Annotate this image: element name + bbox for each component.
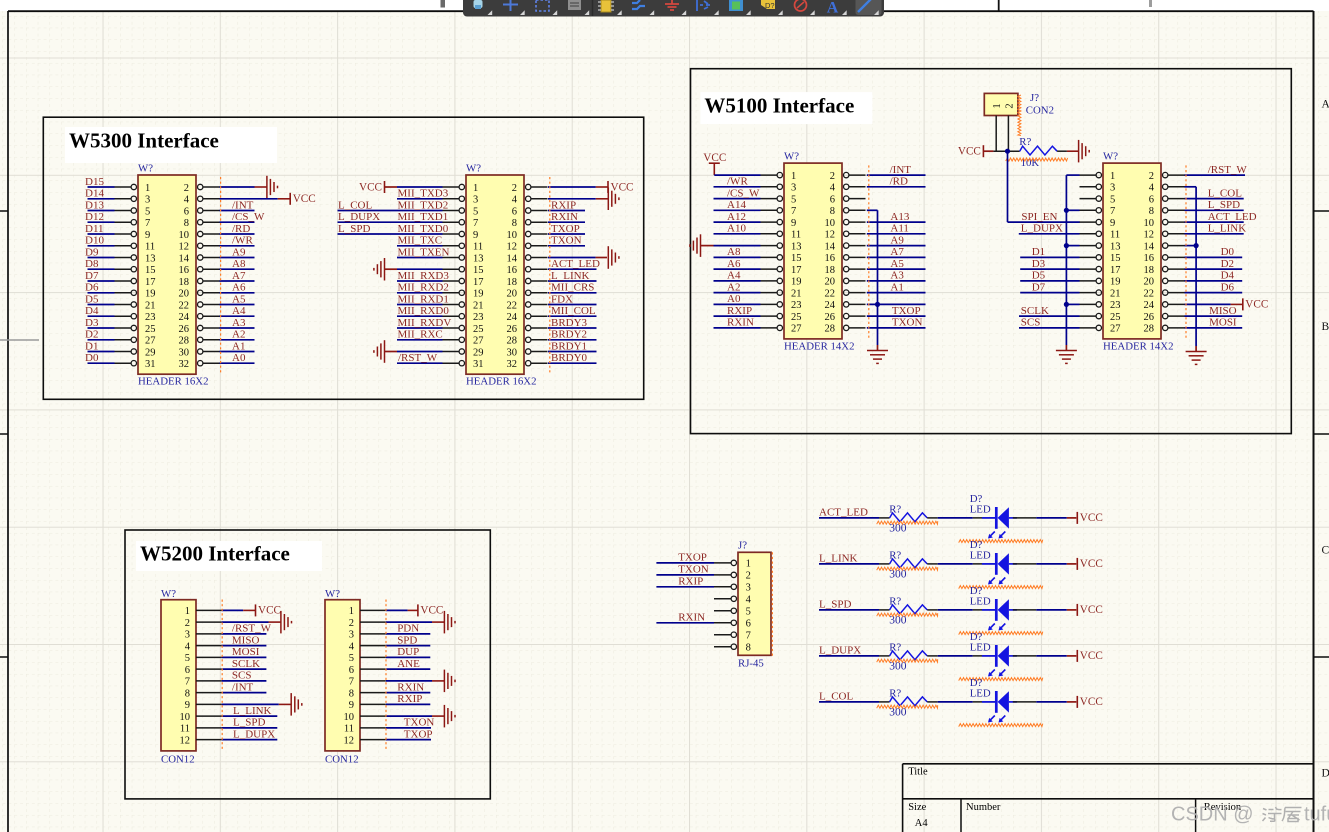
svg-text:D5: D5 — [1032, 270, 1046, 282]
svg-text:1: 1 — [349, 606, 354, 617]
svg-text:/CS_W: /CS_W — [727, 187, 760, 199]
svg-text:DUP: DUP — [397, 646, 419, 658]
svg-text:14: 14 — [179, 253, 190, 264]
svg-text:31: 31 — [473, 359, 484, 370]
svg-text:TXOP: TXOP — [551, 223, 580, 235]
svg-text:L_LINK: L_LINK — [551, 270, 590, 282]
svg-text:Number: Number — [966, 802, 1001, 813]
svg-text:28: 28 — [507, 336, 518, 347]
svg-text:4: 4 — [1149, 183, 1155, 194]
svg-text:28: 28 — [179, 336, 190, 347]
svg-text:/INT: /INT — [232, 199, 254, 211]
svg-text:A12: A12 — [727, 211, 746, 223]
svg-text:MII_TXEN: MII_TXEN — [398, 246, 450, 258]
svg-text:ACT_LED: ACT_LED — [551, 258, 600, 270]
svg-text:2: 2 — [184, 183, 189, 194]
svg-text:R?: R? — [889, 549, 901, 561]
svg-text:HEADER 16X2: HEADER 16X2 — [138, 376, 208, 388]
svg-text:8: 8 — [184, 218, 189, 229]
svg-text:VCC: VCC — [1080, 558, 1103, 570]
svg-text:2: 2 — [1149, 171, 1154, 182]
svg-text:3: 3 — [1110, 183, 1115, 194]
svg-text:TXON: TXON — [892, 317, 923, 329]
svg-text:30: 30 — [179, 347, 190, 358]
svg-text:17: 17 — [791, 265, 802, 276]
svg-text:3: 3 — [185, 630, 190, 641]
svg-text:3: 3 — [791, 183, 796, 194]
svg-text:7: 7 — [791, 206, 796, 217]
svg-text:VCC: VCC — [1080, 512, 1103, 524]
svg-text:21: 21 — [473, 300, 484, 311]
svg-text:20: 20 — [1144, 277, 1155, 288]
svg-text:27: 27 — [473, 336, 484, 347]
svg-text:15: 15 — [473, 265, 484, 276]
svg-text:MII_RXC: MII_RXC — [398, 329, 443, 341]
svg-text:MII_CRS: MII_CRS — [551, 282, 594, 294]
svg-text:LED: LED — [970, 549, 991, 561]
svg-text:9: 9 — [349, 700, 354, 711]
svg-text:11: 11 — [473, 242, 483, 253]
svg-text:3: 3 — [349, 630, 354, 641]
svg-text:A3: A3 — [890, 270, 904, 282]
svg-text:VCC: VCC — [958, 146, 981, 158]
svg-text:5: 5 — [185, 653, 190, 664]
svg-text:2: 2 — [512, 183, 517, 194]
svg-text:W5200 Interface: W5200 Interface — [140, 542, 290, 566]
svg-text:MII_TXD3: MII_TXD3 — [398, 188, 449, 200]
svg-text:J?: J? — [738, 540, 747, 552]
svg-text:4: 4 — [184, 195, 190, 206]
svg-text:18: 18 — [1144, 265, 1155, 276]
svg-text:2: 2 — [349, 618, 354, 629]
svg-text:W?: W? — [466, 163, 481, 175]
svg-text:10: 10 — [179, 230, 190, 241]
svg-text:R?: R? — [889, 641, 901, 653]
svg-text:LED: LED — [970, 687, 991, 699]
svg-text:/WR: /WR — [727, 176, 748, 188]
svg-text:30: 30 — [507, 347, 518, 358]
svg-text:D5: D5 — [85, 293, 99, 305]
svg-text:A5: A5 — [890, 258, 904, 270]
svg-text:22: 22 — [179, 300, 190, 311]
svg-text:17: 17 — [1110, 265, 1121, 276]
svg-text:A1: A1 — [890, 281, 903, 293]
svg-text:D7: D7 — [1032, 281, 1046, 293]
svg-text:3: 3 — [746, 583, 751, 594]
svg-text:HEADER 14X2: HEADER 14X2 — [784, 341, 854, 353]
svg-text:23: 23 — [1110, 300, 1121, 311]
svg-text:W5100 Interface: W5100 Interface — [704, 93, 854, 117]
svg-text:D15: D15 — [85, 176, 104, 188]
svg-text:RXIP: RXIP — [727, 305, 752, 317]
svg-text:VCC: VCC — [420, 605, 443, 617]
svg-text:RJ-45: RJ-45 — [738, 658, 764, 670]
svg-text:C: C — [1322, 545, 1329, 557]
svg-text:2: 2 — [746, 571, 751, 582]
svg-text:7: 7 — [185, 677, 190, 688]
svg-text:A: A — [1322, 99, 1329, 111]
svg-text:4: 4 — [185, 641, 191, 652]
svg-text:23: 23 — [145, 312, 156, 323]
svg-text:A7: A7 — [890, 246, 904, 258]
svg-text:L_DUPX: L_DUPX — [819, 645, 861, 657]
svg-text:MII_RXD0: MII_RXD0 — [398, 305, 450, 317]
svg-text:/RST_W: /RST_W — [232, 623, 272, 635]
svg-text:/RD: /RD — [232, 223, 250, 235]
svg-text:CON12: CON12 — [325, 754, 359, 766]
svg-text:A4: A4 — [915, 818, 929, 829]
svg-text:24: 24 — [507, 312, 518, 323]
svg-text:18: 18 — [825, 265, 836, 276]
svg-text:J?: J? — [1030, 92, 1039, 104]
svg-text:HEADER 16X2: HEADER 16X2 — [466, 376, 536, 388]
svg-text:D10: D10 — [85, 235, 104, 247]
svg-text:5: 5 — [145, 206, 150, 217]
svg-text:ACT_LED: ACT_LED — [1208, 211, 1257, 223]
svg-text:10: 10 — [825, 218, 836, 229]
svg-text:A7: A7 — [232, 270, 246, 282]
svg-text:D14: D14 — [85, 188, 104, 200]
svg-text:11: 11 — [791, 230, 801, 241]
svg-text:1: 1 — [1110, 171, 1115, 182]
svg-text:L_SPD: L_SPD — [1208, 199, 1240, 211]
svg-text:8: 8 — [185, 688, 190, 699]
svg-text:2: 2 — [185, 618, 190, 629]
svg-text:18: 18 — [507, 277, 518, 288]
svg-text:26: 26 — [1144, 312, 1155, 323]
svg-text:1: 1 — [145, 183, 150, 194]
svg-text:CON2: CON2 — [1026, 105, 1054, 117]
svg-text:/WR: /WR — [232, 235, 253, 247]
svg-text:32: 32 — [179, 359, 190, 370]
svg-text:W5300 Interface: W5300 Interface — [69, 129, 219, 153]
svg-text:A2: A2 — [727, 281, 740, 293]
svg-text:300: 300 — [889, 706, 907, 718]
svg-text:24: 24 — [825, 300, 836, 311]
svg-text:12: 12 — [825, 230, 836, 241]
svg-text:BRDY1: BRDY1 — [551, 340, 587, 352]
svg-text:D12: D12 — [85, 211, 104, 223]
svg-text:D11: D11 — [85, 223, 104, 235]
svg-text:10: 10 — [1144, 218, 1155, 229]
svg-text:D2: D2 — [85, 329, 98, 341]
svg-text:12: 12 — [179, 242, 190, 253]
svg-text:15: 15 — [791, 253, 802, 264]
svg-text:25: 25 — [1110, 312, 1121, 323]
svg-text:10: 10 — [180, 712, 191, 723]
svg-text:6: 6 — [512, 206, 517, 217]
svg-text:26: 26 — [179, 324, 190, 335]
svg-text:L_LINK: L_LINK — [233, 705, 272, 717]
svg-text:2: 2 — [830, 171, 835, 182]
svg-text:A8: A8 — [727, 246, 741, 258]
svg-text:MII_TXD1: MII_TXD1 — [398, 211, 449, 223]
svg-text:SCLK: SCLK — [1021, 305, 1049, 317]
svg-text:1: 1 — [791, 171, 796, 182]
svg-text:6: 6 — [830, 194, 835, 205]
svg-text:VCC: VCC — [1080, 696, 1103, 708]
svg-text:A6: A6 — [727, 258, 741, 270]
svg-text:B: B — [1322, 321, 1329, 333]
svg-text:MII_COL: MII_COL — [551, 305, 596, 317]
svg-text:17: 17 — [473, 277, 484, 288]
svg-text:MOSI: MOSI — [232, 646, 260, 658]
svg-text:2: 2 — [1004, 103, 1015, 108]
svg-text:D3: D3 — [85, 317, 99, 329]
svg-text:12: 12 — [180, 735, 191, 746]
svg-text:8: 8 — [1149, 206, 1154, 217]
svg-text:A3: A3 — [232, 317, 246, 329]
svg-text:28: 28 — [825, 324, 836, 335]
svg-text:32: 32 — [507, 359, 518, 370]
svg-text:6: 6 — [746, 619, 751, 630]
svg-text:11: 11 — [344, 724, 354, 735]
svg-text:W?: W? — [784, 151, 799, 163]
svg-text:D0: D0 — [85, 352, 99, 364]
svg-text:3: 3 — [145, 195, 150, 206]
svg-text:R?: R? — [1019, 136, 1031, 148]
svg-text:A11: A11 — [890, 223, 909, 235]
svg-text:4: 4 — [830, 183, 836, 194]
svg-text:12: 12 — [344, 735, 355, 746]
svg-text:9: 9 — [1110, 218, 1115, 229]
svg-text:D0: D0 — [1221, 246, 1235, 258]
svg-text:SCS: SCS — [232, 670, 252, 682]
svg-text:14: 14 — [507, 253, 518, 264]
svg-text:L_DUPX: L_DUPX — [338, 211, 380, 223]
svg-text:Title: Title — [908, 767, 928, 778]
svg-text:/INT: /INT — [890, 164, 912, 176]
svg-text:TXOP: TXOP — [404, 728, 433, 740]
svg-text:D3: D3 — [1032, 258, 1046, 270]
svg-text:D13: D13 — [85, 199, 104, 211]
svg-text:L_LINK: L_LINK — [819, 553, 858, 565]
svg-text:L_SPD: L_SPD — [233, 717, 265, 729]
svg-text:VCC: VCC — [703, 152, 726, 164]
svg-text:300: 300 — [889, 522, 907, 534]
svg-text:/RST_W: /RST_W — [398, 352, 438, 364]
svg-text:D4: D4 — [85, 305, 99, 317]
svg-text:RXIP: RXIP — [397, 693, 422, 705]
svg-text:VCC: VCC — [359, 181, 382, 193]
svg-text:1: 1 — [473, 183, 478, 194]
svg-text:D?: D? — [765, 1, 775, 10]
svg-text:CSDN @: CSDN @ — [1171, 804, 1254, 826]
svg-text:22: 22 — [507, 300, 518, 311]
svg-text:LED: LED — [970, 595, 991, 607]
svg-text:19: 19 — [1110, 277, 1121, 288]
svg-text:7: 7 — [746, 631, 751, 642]
svg-text:MII_RXD3: MII_RXD3 — [398, 270, 450, 282]
svg-text:21: 21 — [145, 300, 156, 311]
svg-text:22: 22 — [825, 288, 836, 299]
svg-text:300: 300 — [889, 614, 907, 626]
svg-text:25: 25 — [145, 324, 156, 335]
svg-text:8: 8 — [349, 688, 354, 699]
svg-text:MII_RXDV: MII_RXDV — [398, 317, 452, 329]
svg-text:tufu: tufu — [1304, 804, 1329, 826]
svg-text:BRDY3: BRDY3 — [551, 317, 588, 329]
svg-text:D1: D1 — [85, 340, 98, 352]
svg-text:VCC: VCC — [293, 193, 316, 205]
svg-text:13: 13 — [473, 253, 484, 264]
svg-text:CON12: CON12 — [161, 754, 195, 766]
svg-text:L_COL: L_COL — [1208, 187, 1243, 199]
svg-text:BRDY2: BRDY2 — [551, 329, 587, 341]
svg-text:TXOP: TXOP — [892, 305, 921, 317]
svg-text:20: 20 — [825, 277, 836, 288]
svg-text:8: 8 — [512, 218, 517, 229]
svg-text:VCC: VCC — [1080, 650, 1103, 662]
svg-text:/RST_W: /RST_W — [1208, 164, 1248, 176]
svg-text:A: A — [827, 0, 839, 17]
svg-text:MISO: MISO — [1209, 305, 1237, 317]
svg-text:17: 17 — [145, 277, 156, 288]
svg-text:W?: W? — [138, 163, 153, 175]
svg-text:11: 11 — [1110, 230, 1120, 241]
svg-text:A1: A1 — [232, 340, 245, 352]
svg-text:TXOP: TXOP — [678, 552, 707, 564]
svg-text:7: 7 — [1110, 206, 1115, 217]
svg-text:MOSI: MOSI — [1209, 317, 1237, 329]
svg-text:21: 21 — [1110, 288, 1121, 299]
svg-text:/RD: /RD — [890, 176, 908, 188]
svg-text:14: 14 — [825, 241, 836, 252]
svg-text:RXIP: RXIP — [551, 199, 576, 211]
svg-text:VCC: VCC — [258, 605, 281, 617]
svg-text:D6: D6 — [1221, 281, 1235, 293]
svg-text:/CS_W: /CS_W — [232, 211, 265, 223]
svg-text:26: 26 — [507, 324, 518, 335]
svg-text:D2: D2 — [1221, 258, 1234, 270]
svg-text:TXON: TXON — [404, 717, 435, 729]
svg-text:MII_RXD2: MII_RXD2 — [398, 282, 449, 294]
svg-text:L_COL: L_COL — [338, 199, 373, 211]
svg-text:Size: Size — [908, 802, 926, 813]
svg-text:3: 3 — [473, 195, 478, 206]
svg-text:A4: A4 — [232, 305, 246, 317]
svg-text:4: 4 — [746, 595, 752, 606]
svg-text:L_LINK: L_LINK — [1208, 223, 1247, 235]
svg-text:16: 16 — [1144, 253, 1155, 264]
svg-text:7: 7 — [473, 218, 478, 229]
svg-text:9: 9 — [791, 218, 796, 229]
svg-text:6: 6 — [349, 665, 354, 676]
svg-text:4: 4 — [349, 641, 355, 652]
svg-text:11: 11 — [180, 724, 190, 735]
svg-text:27: 27 — [1110, 324, 1121, 335]
svg-text:5: 5 — [349, 653, 354, 664]
svg-text:BRDY0: BRDY0 — [551, 352, 588, 364]
svg-text:VCC: VCC — [1245, 299, 1268, 311]
svg-text:D1: D1 — [1032, 246, 1045, 258]
svg-text:RXIP: RXIP — [678, 576, 703, 588]
svg-text:13: 13 — [791, 241, 802, 252]
svg-text:16: 16 — [507, 265, 518, 276]
svg-text:A0: A0 — [727, 293, 741, 305]
svg-text:12: 12 — [507, 242, 518, 253]
svg-text:R?: R? — [889, 595, 901, 607]
svg-text:LED: LED — [970, 503, 991, 515]
svg-text:300: 300 — [889, 660, 907, 672]
svg-text:7: 7 — [349, 677, 354, 688]
svg-text:19: 19 — [473, 289, 484, 300]
svg-text:A13: A13 — [890, 211, 909, 223]
svg-text:1: 1 — [746, 559, 751, 570]
svg-text:PDN: PDN — [397, 623, 419, 635]
svg-text:18: 18 — [179, 277, 190, 288]
svg-text:D9: D9 — [85, 246, 99, 258]
svg-text:16: 16 — [825, 253, 836, 264]
svg-text:5: 5 — [473, 206, 478, 217]
svg-text:16: 16 — [179, 265, 190, 276]
svg-text:1: 1 — [992, 103, 1003, 108]
svg-text:20: 20 — [507, 289, 518, 300]
svg-text:MII_TXC: MII_TXC — [398, 235, 443, 247]
svg-text:MISO: MISO — [232, 634, 260, 646]
svg-text:5: 5 — [791, 194, 796, 205]
svg-text:6: 6 — [184, 206, 189, 217]
svg-text:SCLK: SCLK — [232, 658, 260, 670]
svg-text:D8: D8 — [85, 258, 99, 270]
svg-text:A0: A0 — [232, 352, 246, 364]
svg-text:A9: A9 — [232, 246, 246, 258]
svg-text:24: 24 — [179, 312, 190, 323]
svg-text:11: 11 — [145, 242, 155, 253]
svg-text:/INT: /INT — [232, 681, 254, 693]
svg-text:10: 10 — [344, 712, 355, 723]
svg-text:VCC: VCC — [1080, 604, 1103, 616]
svg-text:D7: D7 — [85, 270, 99, 282]
svg-text:FDX: FDX — [551, 293, 573, 305]
svg-text:MII_RXD1: MII_RXD1 — [398, 293, 449, 305]
svg-text:ACT_LED: ACT_LED — [819, 507, 868, 519]
svg-text:24: 24 — [1144, 300, 1155, 311]
svg-text:VCC: VCC — [611, 181, 634, 193]
svg-text:15: 15 — [145, 265, 156, 276]
svg-text:12: 12 — [1144, 230, 1155, 241]
svg-text:6: 6 — [185, 665, 190, 676]
svg-text:27: 27 — [145, 336, 156, 347]
svg-text:RXIN: RXIN — [551, 211, 578, 223]
svg-text:D6: D6 — [85, 282, 99, 294]
svg-text:L_DUPX: L_DUPX — [1021, 223, 1063, 235]
svg-text:19: 19 — [145, 289, 156, 300]
svg-text:A14: A14 — [727, 199, 746, 211]
svg-text:MII_TXD0: MII_TXD0 — [398, 223, 449, 235]
svg-text:4: 4 — [512, 195, 518, 206]
svg-text:25: 25 — [791, 312, 802, 323]
svg-text:A5: A5 — [232, 293, 246, 305]
svg-text:L_COL: L_COL — [819, 691, 854, 703]
svg-text:R?: R? — [889, 687, 901, 699]
svg-text:15: 15 — [1110, 253, 1121, 264]
svg-text:HEADER 14X2: HEADER 14X2 — [1103, 341, 1173, 353]
svg-text:MII_TXD2: MII_TXD2 — [398, 199, 449, 211]
svg-text:L_SPD: L_SPD — [338, 223, 370, 235]
svg-text:ANE: ANE — [397, 658, 420, 670]
svg-text:L_SPD: L_SPD — [819, 599, 851, 611]
svg-text:21: 21 — [791, 288, 802, 299]
svg-text:RXIN: RXIN — [727, 317, 754, 329]
svg-text:6: 6 — [1149, 194, 1154, 205]
svg-text:27: 27 — [791, 324, 802, 335]
svg-text:13: 13 — [1110, 241, 1121, 252]
svg-text:5: 5 — [1110, 194, 1115, 205]
svg-text:A6: A6 — [232, 282, 246, 294]
svg-text:20: 20 — [179, 289, 190, 300]
svg-text:13: 13 — [145, 253, 156, 264]
